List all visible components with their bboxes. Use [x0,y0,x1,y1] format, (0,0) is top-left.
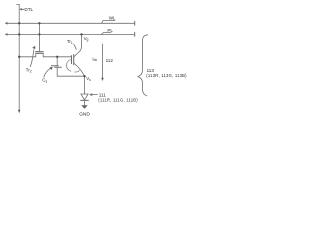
junction PL to Tr1 drain [80,33,82,35]
junction gate line x WL [38,22,40,24]
wire DTL to Tr2 source [19,56,36,58]
svg-text:PL: PL [107,28,113,33]
svg-text:Tr2: Tr2 [26,68,32,74]
leader from Tr2 label [30,50,34,67]
organic EL element cathode bar [81,99,89,101]
organic EL element 111 triangle [81,94,88,100]
transistor Tr1 channel bar [73,55,75,65]
DTL bottom arrowhead [18,110,21,113]
transistor Tr2 gate bar [36,51,44,53]
wire Tr2 drain to node g [43,56,71,58]
svg-text:GND: GND [79,112,90,118]
power line PL [6,34,135,36]
arrowhead of Tr2 leader [32,46,35,50]
label arrow to DTL [20,9,24,10]
svg-text:DTL: DTL [24,7,33,12]
svg-text:(113R, 113G, 113B): (113R, 113G, 113B) [146,73,187,78]
current Ids arrow [102,44,104,79]
arrowhead of Cs leader [49,67,53,70]
svg-text:(111R, 111G, 111B): (111R, 111G, 111B) [98,97,138,102]
svg-text:Tr1: Tr1 [67,39,73,45]
junction DTL x WL [18,22,20,24]
arrow to EL element 111 [90,94,98,96]
OLED anode wire [84,76,86,94]
leader from Tr1 label [74,44,76,49]
word line WL [6,23,135,25]
transistor Tr1 drain lead to PL [74,34,82,57]
transistor Tr2 drain lead [42,53,44,56]
junction DTL x PL [18,33,20,35]
brace for pixel 113 [138,35,148,96]
transistor Tr2 source lead [35,53,37,56]
svg-text:Ids: Ids [92,56,97,62]
capacitor Cs bottom plate [55,66,62,68]
svg-text:WL: WL [109,16,116,21]
WL label leader [102,21,115,24]
PL label leader [101,33,111,35]
PL right end bar [134,33,136,37]
ground symbol [81,105,87,109]
transistor Tr2 gate line from WL [38,23,40,51]
transistor Tr1 source lead to node s [74,63,85,76]
wire cathode to ground [84,100,86,105]
svg-text:Cs: Cs [42,78,47,84]
wire capacitor to node s row [57,68,84,76]
junction DTL to Tr2 source [18,56,20,58]
capacitor Cs top plate [51,65,58,67]
node s junction [83,75,85,77]
wire node g down to capacitor [56,57,58,66]
leader from Cs label [44,68,51,77]
transistor Tr2 channel bar [36,52,43,54]
svg-text:112: 112 [106,58,114,63]
junction gate line x PL [38,33,40,35]
WL right end bar [134,21,136,25]
transistor Tr1 circle [67,60,71,71]
transistor Tr1 gate bar [71,56,73,64]
svg-text:Vs: Vs [86,76,91,82]
node g junction [56,56,58,58]
data line DTL [17,4,20,110]
svg-text:Vg: Vg [84,36,89,42]
